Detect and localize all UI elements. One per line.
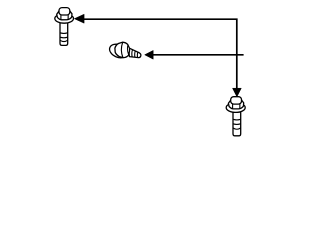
bolt B2 hex head face	[115, 42, 130, 57]
bolt B1 thread lines	[60, 33, 68, 42]
bolt B3 hex top face	[231, 97, 242, 104]
bolt B2 thread ridges	[132, 50, 138, 58]
bolt B2 right facet arc	[127, 45, 128, 55]
bolt B3 facet lines	[233, 104, 240, 109]
bolt B3: vertical flange hex bolt, bottom-right	[226, 97, 245, 136]
bolt B1: vertical flange hex bolt, top-left	[55, 8, 74, 46]
arrowhead pointing left at bolt B1	[74, 14, 84, 23]
bolt B2: horizontal flange hex bolt, middle	[108, 42, 141, 61]
wire: leader line from bolt B2 to right, crossing vertical line	[153, 54, 244, 56]
bolt B3 hex skirt	[228, 100, 243, 109]
bolt B1 hex top face	[59, 8, 70, 15]
bolt B3 thread lines	[233, 119, 241, 129]
bolt B2 facet line	[121, 42, 123, 57]
bolt B1 flange	[55, 14, 74, 23]
bolt B1 shank	[60, 23, 68, 46]
arrowhead pointing left at bolt B2	[145, 50, 154, 59]
wire: leader line from bolt B1 across top and down right side	[84, 19, 237, 88]
bolt B3 flange	[226, 103, 245, 113]
arrowhead pointing down at bolt B3	[233, 88, 242, 97]
bolt B1 hex skirt	[57, 10, 72, 19]
bolt B2 shank with threads	[129, 48, 141, 58]
bolt B1 facet lines	[61, 15, 68, 20]
bolt B2 flange	[108, 42, 130, 61]
bolt B3 shank	[233, 112, 241, 136]
